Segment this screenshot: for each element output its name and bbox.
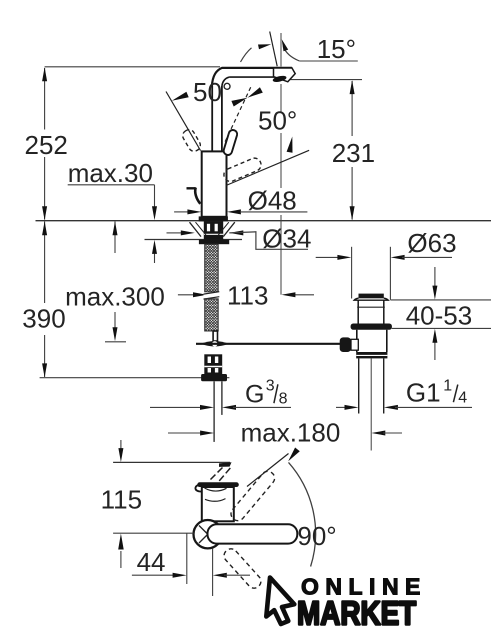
dimension 40-53 arrows — [434, 267, 436, 287]
rod break marks — [204, 292, 220, 299]
svg-text:G1: G1 — [406, 378, 441, 408]
svg-text:44: 44 — [137, 547, 166, 577]
40-53 extension lines — [390, 299, 491, 301]
dimension G3/8 arrows — [150, 406, 203, 408]
mounting nut — [204, 354, 222, 374]
faucet riser pipe — [211, 86, 213, 151]
plan top line — [113, 461, 230, 463]
plan swivel circle — [194, 520, 222, 548]
nut base collar — [201, 374, 227, 381]
svg-text:4: 4 — [458, 389, 467, 406]
plan spout tip — [219, 462, 232, 467]
svg-text:3: 3 — [266, 378, 275, 395]
dimension 252 vertical line — [44, 68, 46, 130]
svg-text:113: 113 — [227, 281, 268, 311]
solid lever — [223, 129, 239, 156]
drain neck — [357, 301, 359, 324]
svg-text:max.30: max.30 — [68, 158, 153, 188]
side outlet hook — [187, 187, 196, 189]
svg-text:max.300: max.300 — [65, 281, 165, 311]
gasket hatch right — [223, 222, 235, 236]
50 deg left arrowhead — [172, 92, 189, 101]
15 deg right arc — [283, 47, 299, 62]
svg-text:50°: 50° — [258, 106, 297, 136]
plan body inner curves — [205, 488, 227, 491]
svg-text:15°: 15° — [317, 34, 356, 64]
gasket hatch left — [190, 222, 202, 236]
50 deg left angle line — [166, 92, 201, 151]
max.30 lower arrow — [154, 253, 156, 263]
dimension 113 arrows — [178, 294, 194, 296]
svg-text:MARKET: MARKET — [297, 595, 417, 632]
max.300 bottom tick — [105, 341, 126, 343]
44 center extension line — [212, 549, 214, 597]
390 bottom extension line — [40, 377, 230, 379]
lift rod pivot — [201, 341, 229, 346]
15 deg tilted line — [270, 32, 278, 67]
dimension 390 vertical line — [44, 222, 46, 304]
dimension diam63 arrows — [316, 256, 340, 258]
dimension max180 arrows — [168, 432, 203, 434]
mounting shank upper — [204, 221, 223, 239]
dimension diam34 arrows — [167, 232, 183, 234]
dashed lever left position — [181, 128, 203, 154]
pop-up rod — [196, 343, 340, 345]
spout tip centerline — [280, 33, 282, 67]
drain collar — [351, 324, 392, 330]
231 top extension line — [284, 79, 362, 81]
svg-text:50°: 50° — [193, 77, 232, 107]
top extension line at spout height — [45, 66, 220, 68]
dimension G1 1/4 arrows — [336, 406, 347, 408]
countertop lower line — [145, 239, 243, 241]
svg-text:1: 1 — [443, 377, 452, 394]
rod connector box — [351, 339, 358, 350]
115 lower extension line — [113, 532, 194, 534]
logo text MARKET — [297, 595, 417, 632]
plan lever head bar — [197, 482, 239, 487]
drain centerline — [370, 358, 372, 450]
faucet body — [202, 151, 227, 216]
svg-text:8: 8 — [279, 390, 288, 407]
dimension 44 arrows — [132, 574, 175, 576]
50 deg right arrowhead — [287, 137, 293, 153]
max.30 leader shelf — [68, 184, 155, 186]
svg-text:Ø63: Ø63 — [407, 228, 456, 258]
drain flange cap — [359, 295, 384, 298]
50 deg bowtie arrowheads — [231, 98, 247, 107]
faucet spout outline — [212, 68, 292, 86]
countertop line — [36, 220, 492, 222]
dimension 115 arrows — [120, 440, 122, 450]
lift rod pin — [213, 331, 217, 341]
15 deg left arc — [241, 48, 252, 62]
drain body — [356, 330, 358, 352]
plan spout hatch — [210, 468, 223, 481]
diam63 extension lines — [351, 247, 353, 299]
90 deg angle line — [247, 454, 289, 487]
plan body box — [202, 487, 234, 521]
90 deg arc — [289, 462, 316, 566]
plan lever arm — [208, 524, 298, 543]
max.30 upper arrow — [154, 185, 156, 207]
spout tip block — [274, 68, 296, 82]
svg-text:40-53: 40-53 — [406, 301, 473, 331]
svg-text:Ø48: Ø48 — [248, 186, 297, 216]
body bottom flange bar — [199, 216, 228, 221]
svg-text:G: G — [245, 381, 264, 409]
svg-text:390: 390 — [22, 303, 65, 333]
threaded rod lower section — [205, 299, 219, 331]
svg-text:115: 115 — [101, 485, 142, 515]
dimension max.300 vertical line — [114, 222, 116, 254]
50 deg right angle line — [226, 150, 309, 185]
plan hook ear — [195, 484, 201, 491]
plan dashed lever up position — [228, 469, 277, 524]
logo cursor icon — [266, 578, 294, 625]
svg-text:90°: 90° — [297, 521, 336, 551]
rod knob — [340, 337, 351, 352]
svg-text:231: 231 — [332, 138, 375, 168]
15 deg label shelf — [299, 60, 357, 62]
drain tailpipe — [358, 358, 360, 413]
50 deg axis line dashed — [224, 87, 251, 144]
svg-text:Ø34: Ø34 — [262, 224, 311, 254]
dimension 231 vertical line — [351, 81, 353, 136]
threaded rod upper section — [205, 244, 219, 292]
supply pipe — [213, 381, 215, 442]
dashed lever right position — [222, 156, 263, 183]
plan dashed lever down position — [221, 546, 263, 591]
svg-text:max.180: max.180 — [241, 418, 341, 448]
dimension diam48 arrows — [174, 211, 190, 213]
svg-text:252: 252 — [25, 130, 68, 160]
44 left extension line — [186, 533, 188, 584]
mounting base bar — [199, 240, 229, 245]
